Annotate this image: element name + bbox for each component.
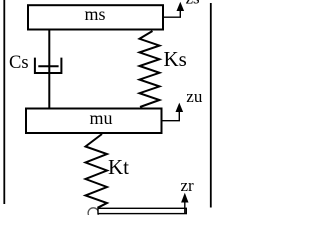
arrow zu head [176,103,184,112]
spring Ks [140,31,160,107]
svg-text:Kt: Kt [108,155,129,179]
mass mu box [26,109,162,134]
arrow zs connector wire [163,10,180,18]
svg-text:mu: mu [89,108,112,128]
arrow zr head [181,193,188,203]
svg-text:zu: zu [186,87,203,106]
svg-text:ms: ms [84,4,105,24]
damper Cs piston [38,65,58,67]
wheel contact circle [88,208,98,218]
svg-text:zs: zs [186,0,200,8]
frame right border [210,3,212,208]
svg-text:Ks: Ks [164,47,187,71]
svg-text:zr: zr [181,176,195,195]
arrow zr line [184,201,186,213]
road bar [98,208,186,213]
mass ms box [28,5,163,29]
arrow zs head [177,2,185,11]
damper Cs cup [35,58,62,73]
spring Kt [86,134,108,208]
frame left border [3,0,5,204]
wire damper rod [48,30,50,108]
arrow zu connector wire [162,112,180,121]
svg-text:Cs: Cs [9,53,29,73]
